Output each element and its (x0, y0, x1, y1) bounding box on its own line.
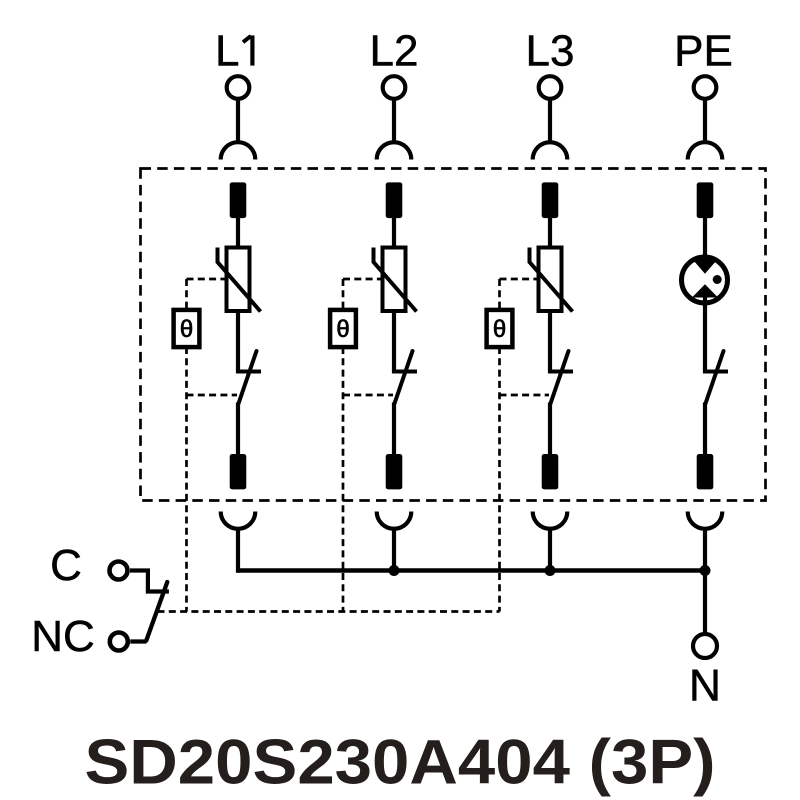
wire PE to N terminal (703, 529, 707, 633)
wire PE terminal (703, 101, 707, 144)
svg-text:N: N (689, 662, 721, 711)
thermal linkage dashes column L3 (500, 279, 550, 612)
thermal linkage dashes column L1 (187, 279, 238, 612)
gas discharge tube GDT (682, 257, 728, 303)
plug contact PE bottom (688, 512, 723, 529)
plug contact L3 bottom (533, 512, 568, 529)
wire L1 to bus (236, 529, 240, 573)
remote signal contact blade (146, 582, 167, 641)
terminal L3 (539, 76, 562, 99)
svg-text:NC: NC (31, 612, 95, 661)
plug contact L2 bottom (377, 512, 412, 529)
svg-text:θ: θ (493, 316, 506, 343)
wire NC (130, 639, 146, 643)
varistor RV2 (383, 248, 406, 312)
svg-text:θ: θ (336, 316, 349, 343)
terminal PE (694, 76, 717, 99)
plug contact PE top (688, 142, 723, 159)
plug contact L1 bottom (221, 512, 256, 529)
plug contact L1 top (221, 142, 256, 159)
bus wire to N (238, 568, 705, 573)
terminal L1 (227, 76, 250, 99)
disconnect switch L2 (392, 311, 396, 373)
wire L1 terminal (236, 101, 240, 144)
thermal disconnect unit T1 (174, 310, 200, 347)
wire L3 to varistor (548, 217, 552, 248)
svg-text:SD20S230A404 (3P): SD20S230A404 (3P) (85, 728, 716, 798)
svg-text:PE: PE (674, 27, 733, 76)
disconnect switch PE (703, 370, 728, 374)
terminal block L1 bottom (230, 454, 247, 489)
terminal C (110, 562, 128, 580)
svg-text:C: C (50, 541, 82, 590)
terminal block L1 top (230, 182, 247, 218)
terminal NC (110, 633, 128, 651)
wire PE to gas discharge tube (703, 217, 707, 264)
enclosure dashed outline (141, 169, 766, 501)
linkage dash to remote contact (158, 610, 500, 613)
thermal disconnect unit T3 (487, 310, 513, 347)
junction L2-bus (389, 565, 400, 576)
plug contact L3 top (533, 142, 568, 159)
wire L1 to varistor (236, 217, 240, 248)
varistor RV1 (227, 248, 250, 312)
thermal disconnect unit T2 (330, 310, 356, 347)
svg-text:L3: L3 (526, 27, 575, 76)
terminal block L3 top (542, 182, 559, 218)
junction L3-bus (545, 565, 556, 576)
terminal block PE bottom (697, 454, 714, 489)
plug contact L2 top (377, 142, 412, 159)
wire L3 to bus (548, 529, 552, 571)
wire L2 terminal (392, 101, 396, 144)
junction PE-bus (700, 565, 711, 576)
wire GDT to switch (703, 294, 707, 373)
wire L2 to bus (392, 529, 396, 571)
wire L3 terminal (548, 101, 552, 144)
svg-text:θ: θ (180, 316, 193, 343)
svg-text:L2: L2 (370, 27, 419, 76)
wire L2 to varistor (392, 217, 396, 248)
disconnect switch L3 (548, 311, 552, 373)
varistor RV3 (539, 248, 562, 312)
terminal block L3 bottom (542, 454, 559, 489)
wire C fixed contact (130, 571, 169, 592)
thermal linkage dashes column L2 (343, 279, 393, 612)
terminal N (693, 634, 717, 658)
disconnect switch L1 (236, 311, 240, 373)
terminal L2 (383, 76, 406, 99)
terminal block L2 bottom (386, 454, 403, 489)
terminal block L2 top (386, 182, 403, 218)
terminal block PE top (697, 182, 714, 218)
svg-text:L: L (215, 27, 239, 76)
